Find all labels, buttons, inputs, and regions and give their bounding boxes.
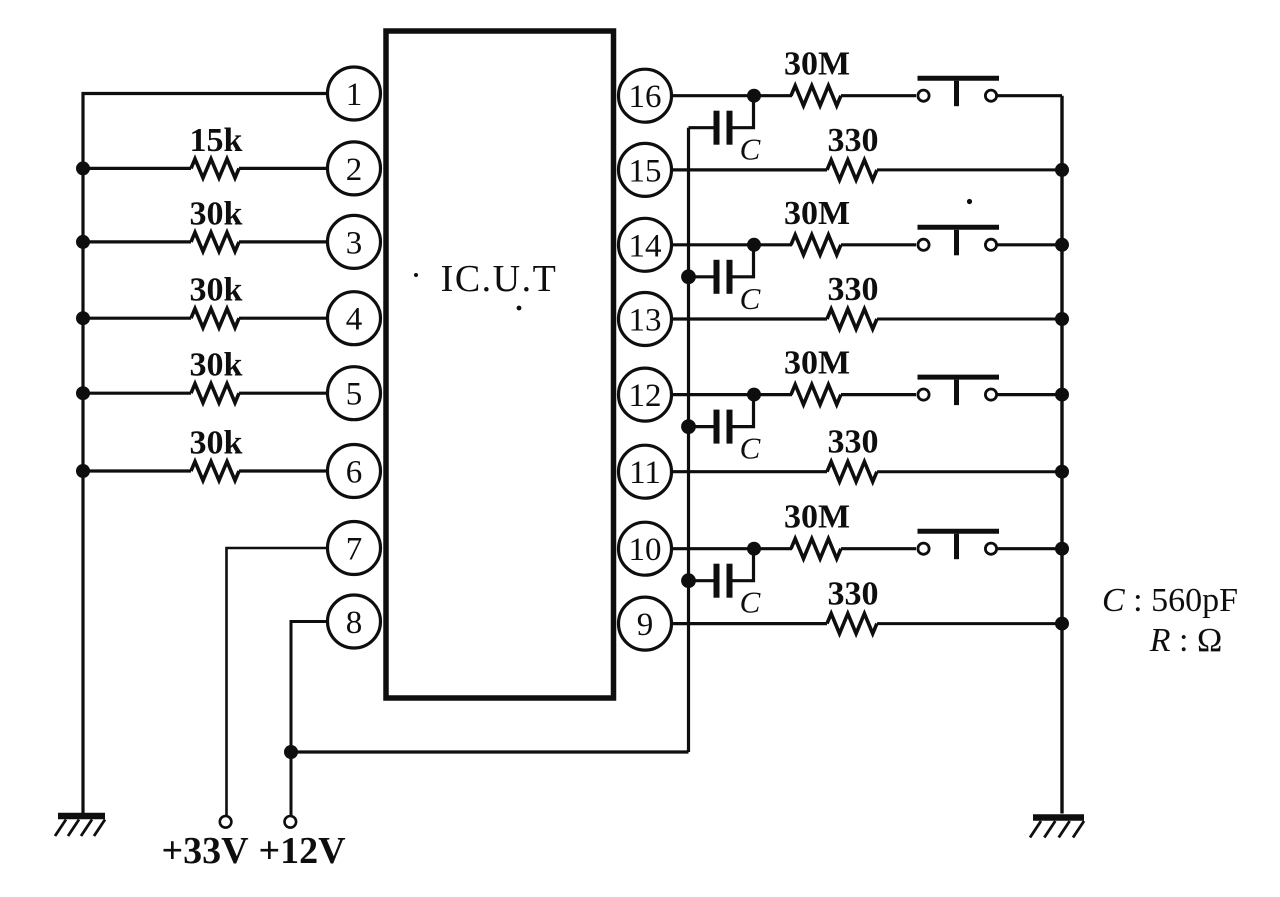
wire junction to resistor 30M (pin 12) [754,393,792,396]
wire switch to right bus (pin 10) [998,547,1063,550]
wire pin 16 to junction [669,94,754,97]
wire resistor 30M to switch (pin 16) [841,94,916,97]
svg-text:14: 14 [629,228,662,264]
svg-text:5: 5 [346,377,363,413]
wire switch to right bus (pin 14) [998,243,1063,246]
capacitor C (pin 16 row) plates [714,111,720,145]
wire pin 15 to resistor 330 [669,168,827,171]
svg-text:2: 2 [346,152,363,188]
IC U1 (device under test) box [386,31,614,698]
svg-text:C: C [740,585,761,620]
resistor 330 (pin 15) [827,160,877,180]
svg-text:30k: 30k [190,195,243,232]
junction dot right bus row pin 15 [1055,163,1069,177]
svg-text:C : 560pF: C : 560pF [1102,582,1238,619]
junction dot right bus row pin 13 [1055,312,1069,326]
svg-text:C: C [740,281,761,316]
push-button switch (pin 14 row) left contact [918,239,929,250]
junction dot pin 12 node [747,388,761,402]
pin 12 [619,368,672,421]
wire pin1 to left ground bus [83,94,330,814]
junction dot right bus row pin 11 [1055,465,1069,479]
resistor 30M (pin 16) [791,86,841,106]
resistor 30k (pin 6) [191,462,239,481]
junction dot capacitor bus (pin 14 row) [681,269,696,284]
svg-text:15k: 15k [190,122,243,159]
junction dot left bus row pin 2 [76,161,90,175]
junction dot right bus row pin 14 [1055,238,1069,252]
junction dot left bus row pin 6 [76,464,90,478]
capacitor C (pin 12 row) plates [714,410,720,444]
wire junction to resistor 30M (pin 14) [754,243,792,246]
junction dot +12V node [284,745,298,759]
pin 13 [619,293,672,346]
svg-text:8: 8 [346,605,363,641]
push-button switch (pin 10 row) stem [954,534,959,560]
wire resistor to pin 2 [239,167,330,170]
wire resistor to pin 5 [239,392,330,395]
wire switch to right bus (pin 16) [998,94,1063,97]
resistor 30M (pin 14) [791,235,841,255]
push-button switch (pin 16 row) left contact [918,90,929,101]
capacitor C (pin 12 row) right lead to junction [733,399,754,427]
pin 16 [619,69,672,122]
svg-text:13: 13 [629,303,662,339]
wire pin8 to +12V terminal [291,622,330,816]
junction dot pin 14 node [747,238,761,252]
svg-text:330: 330 [828,122,879,159]
push-button switch (pin 12 row) bar [918,375,1000,380]
svg-text:30M: 30M [784,195,850,232]
svg-text:6: 6 [346,455,363,491]
svg-text:C: C [740,431,761,466]
svg-text:30M: 30M [784,345,850,382]
wire resistor to pin 6 [239,469,330,472]
junction dot pin 10 node [747,542,761,556]
resistor 30k (pin 4) [191,309,239,328]
junction dot capacitor bus (pin 12 row) [681,419,696,434]
wire resistor 330 to right bus (pin 13) [877,318,1062,321]
wire pin 13 to resistor 330 [669,317,827,320]
resistor 330 (pin 11) [827,462,877,482]
wire junction to resistor 30M (pin 16) [754,94,792,97]
ground (left) [58,813,105,820]
push-button switch (pin 14 row) right contact [985,239,996,250]
pin 4 [328,292,381,345]
pin 2 [328,142,381,195]
svg-text:R : Ω: R : Ω [1149,622,1223,659]
resistor 30M (pin 12) [791,385,841,405]
wire capacitor bus (vertical net) [687,128,690,752]
pin 9 [619,597,672,650]
pin 10 [619,522,672,575]
svg-text:+33V: +33V [161,830,249,872]
push-button switch (pin 10 row) bar [918,529,1000,534]
wire pin 14 to junction [669,243,754,246]
svg-text:3: 3 [346,225,363,261]
junction dot left bus row pin 4 [76,311,90,325]
svg-text:+12V: +12V [258,830,346,872]
pin 1 [328,67,381,120]
push-button switch (pin 16 row) stem [954,81,959,107]
push-button switch (pin 14 row) bar [918,225,1000,230]
svg-text:1: 1 [346,77,363,113]
wire resistor 30M to switch (pin 12) [841,393,916,396]
push-button switch (pin 10 row) right contact [985,543,996,554]
svg-text:30M: 30M [784,46,850,83]
svg-text:10: 10 [629,532,662,568]
resistor 330 (pin 9) [827,614,877,634]
speck [414,273,418,277]
pin 15 [619,143,672,196]
svg-text:330: 330 [828,576,879,613]
svg-text:16: 16 [629,79,662,115]
capacitor C (pin 12 row) left lead [689,425,714,428]
wire junction to resistor 30M (pin 10) [754,547,792,550]
junction dot pin 16 node [747,89,761,103]
terminal +12V [285,816,297,828]
wire +12V node to capacitor bus [291,750,689,753]
svg-text:15: 15 [629,153,662,189]
wire pin 10 to junction [669,547,754,550]
push-button switch (pin 16 row) bar [918,76,1000,81]
svg-text:9: 9 [637,607,654,643]
terminal +33V [220,816,232,828]
junction dot right bus row pin 12 [1055,388,1069,402]
junction dot right bus row pin 10 [1055,542,1069,556]
capacitor C (pin 14 row) plates [714,260,720,294]
pin 8 [328,595,381,648]
svg-text:4: 4 [346,302,363,338]
svg-text:330: 330 [828,271,879,308]
wire left bus to resistor row pin 5 [83,392,191,395]
wire resistor to pin 3 [239,240,330,243]
resistor 30k (pin 5) [191,384,239,403]
resistor 330 (pin 13) [827,309,877,329]
wire pin 11 to resistor 330 [669,470,827,473]
wire switch to right bus (pin 12) [998,393,1063,396]
svg-text:IC.U.T: IC.U.T [441,258,558,300]
wire resistor 30M to switch (pin 10) [841,547,916,550]
pin 11 [619,445,672,498]
push-button switch (pin 14 row) stem [954,230,959,256]
pin 7 [328,522,381,575]
wire left bus to resistor row pin 2 [83,167,191,170]
capacitor C (pin 10 row) plates [714,564,720,598]
svg-text:30k: 30k [190,347,243,384]
resistor 30k (pin 3) [191,232,239,251]
push-button switch (pin 12 row) right contact [985,389,996,400]
wire left bus to resistor row pin 4 [83,317,191,320]
capacitor C (pin 14 row) right lead to junction [733,249,754,277]
junction dot left bus row pin 5 [76,386,90,400]
svg-text:12: 12 [629,378,662,414]
wire pin 12 to junction [669,393,754,396]
pin 6 [328,445,381,498]
wire pin7 to +33V terminal [227,548,331,816]
resistor 15k (pin 2) [191,159,239,178]
pin 14 [619,218,672,271]
wire pin 9 to resistor 330 [669,622,827,625]
wire left bus to resistor row pin 6 [83,469,191,472]
wire resistor 330 to right bus (pin 11) [877,470,1062,473]
capacitor C (pin 14 row) left lead [689,275,714,278]
wire right bus to ground [1060,96,1063,814]
pin 3 [328,215,381,268]
push-button switch (pin 10 row) left contact [918,543,929,554]
capacitor C (pin 16 row) left lead [689,126,714,129]
junction dot right bus row pin 9 [1055,617,1069,631]
wire resistor 330 to right bus (pin 15) [877,168,1062,171]
wire left bus to resistor row pin 3 [83,240,191,243]
svg-text:7: 7 [346,532,363,568]
capacitor C (pin 16 row) right lead to junction [733,100,754,128]
svg-text:11: 11 [629,455,661,491]
svg-text:30k: 30k [190,272,243,309]
pin 5 [328,367,381,420]
svg-text:30M: 30M [784,499,850,536]
wire resistor to pin 4 [239,317,330,320]
push-button switch (pin 16 row) right contact [985,90,996,101]
svg-text:C: C [740,132,761,167]
ground (right) [1033,814,1084,821]
wire resistor 330 to right bus (pin 9) [877,622,1062,625]
svg-text:30k: 30k [190,425,243,462]
junction dot capacitor bus (pin 10 row) [681,573,696,588]
capacitor C (pin 10 row) right lead to junction [733,553,754,581]
push-button switch (pin 12 row) left contact [918,389,929,400]
svg-text:330: 330 [828,424,879,461]
wire resistor 30M to switch (pin 14) [841,243,916,246]
capacitor C (pin 10 row) left lead [689,579,714,582]
push-button switch (pin 12 row) stem [954,380,959,406]
resistor 30M (pin 10) [791,539,841,559]
junction dot left bus row pin 3 [76,235,90,249]
